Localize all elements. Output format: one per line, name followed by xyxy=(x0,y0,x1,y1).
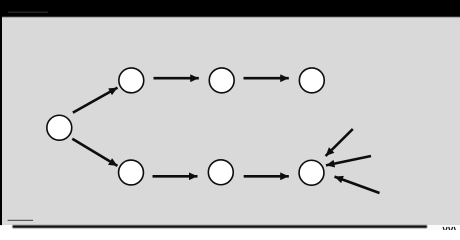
arrow bottom row 2-3 xyxy=(244,175,289,178)
bottom white strip below canvas xyxy=(0,225,460,230)
arrow from start node to bottom row (down-right) xyxy=(72,139,117,166)
incoming arrow right into last node xyxy=(326,156,371,165)
arrow from start node to top row (up-right) xyxy=(73,88,118,113)
arrow bottom row 1-2 xyxy=(153,175,198,178)
node bottom 1 xyxy=(119,160,144,185)
node start (left) xyxy=(47,115,72,140)
incoming arrow upper-right into last node xyxy=(326,129,353,156)
node top 1 xyxy=(119,68,144,93)
node top 2 xyxy=(209,68,234,93)
bottom black rule xyxy=(13,225,428,228)
left black border strip xyxy=(0,0,2,225)
node bottom 2 xyxy=(208,160,233,185)
arrow top row 1-2 xyxy=(154,77,199,80)
node bottom 3 (convergence node) xyxy=(299,160,324,185)
incoming arrow lower-right into last node xyxy=(335,177,380,193)
faint dash bottom-left xyxy=(8,220,33,221)
top black header bar xyxy=(0,0,460,17)
faint underline inside header bar xyxy=(8,12,48,13)
arrow top row 2-3 xyxy=(244,77,289,80)
cut-off W text bottom-right xyxy=(443,227,455,231)
node top 3 xyxy=(299,68,324,93)
